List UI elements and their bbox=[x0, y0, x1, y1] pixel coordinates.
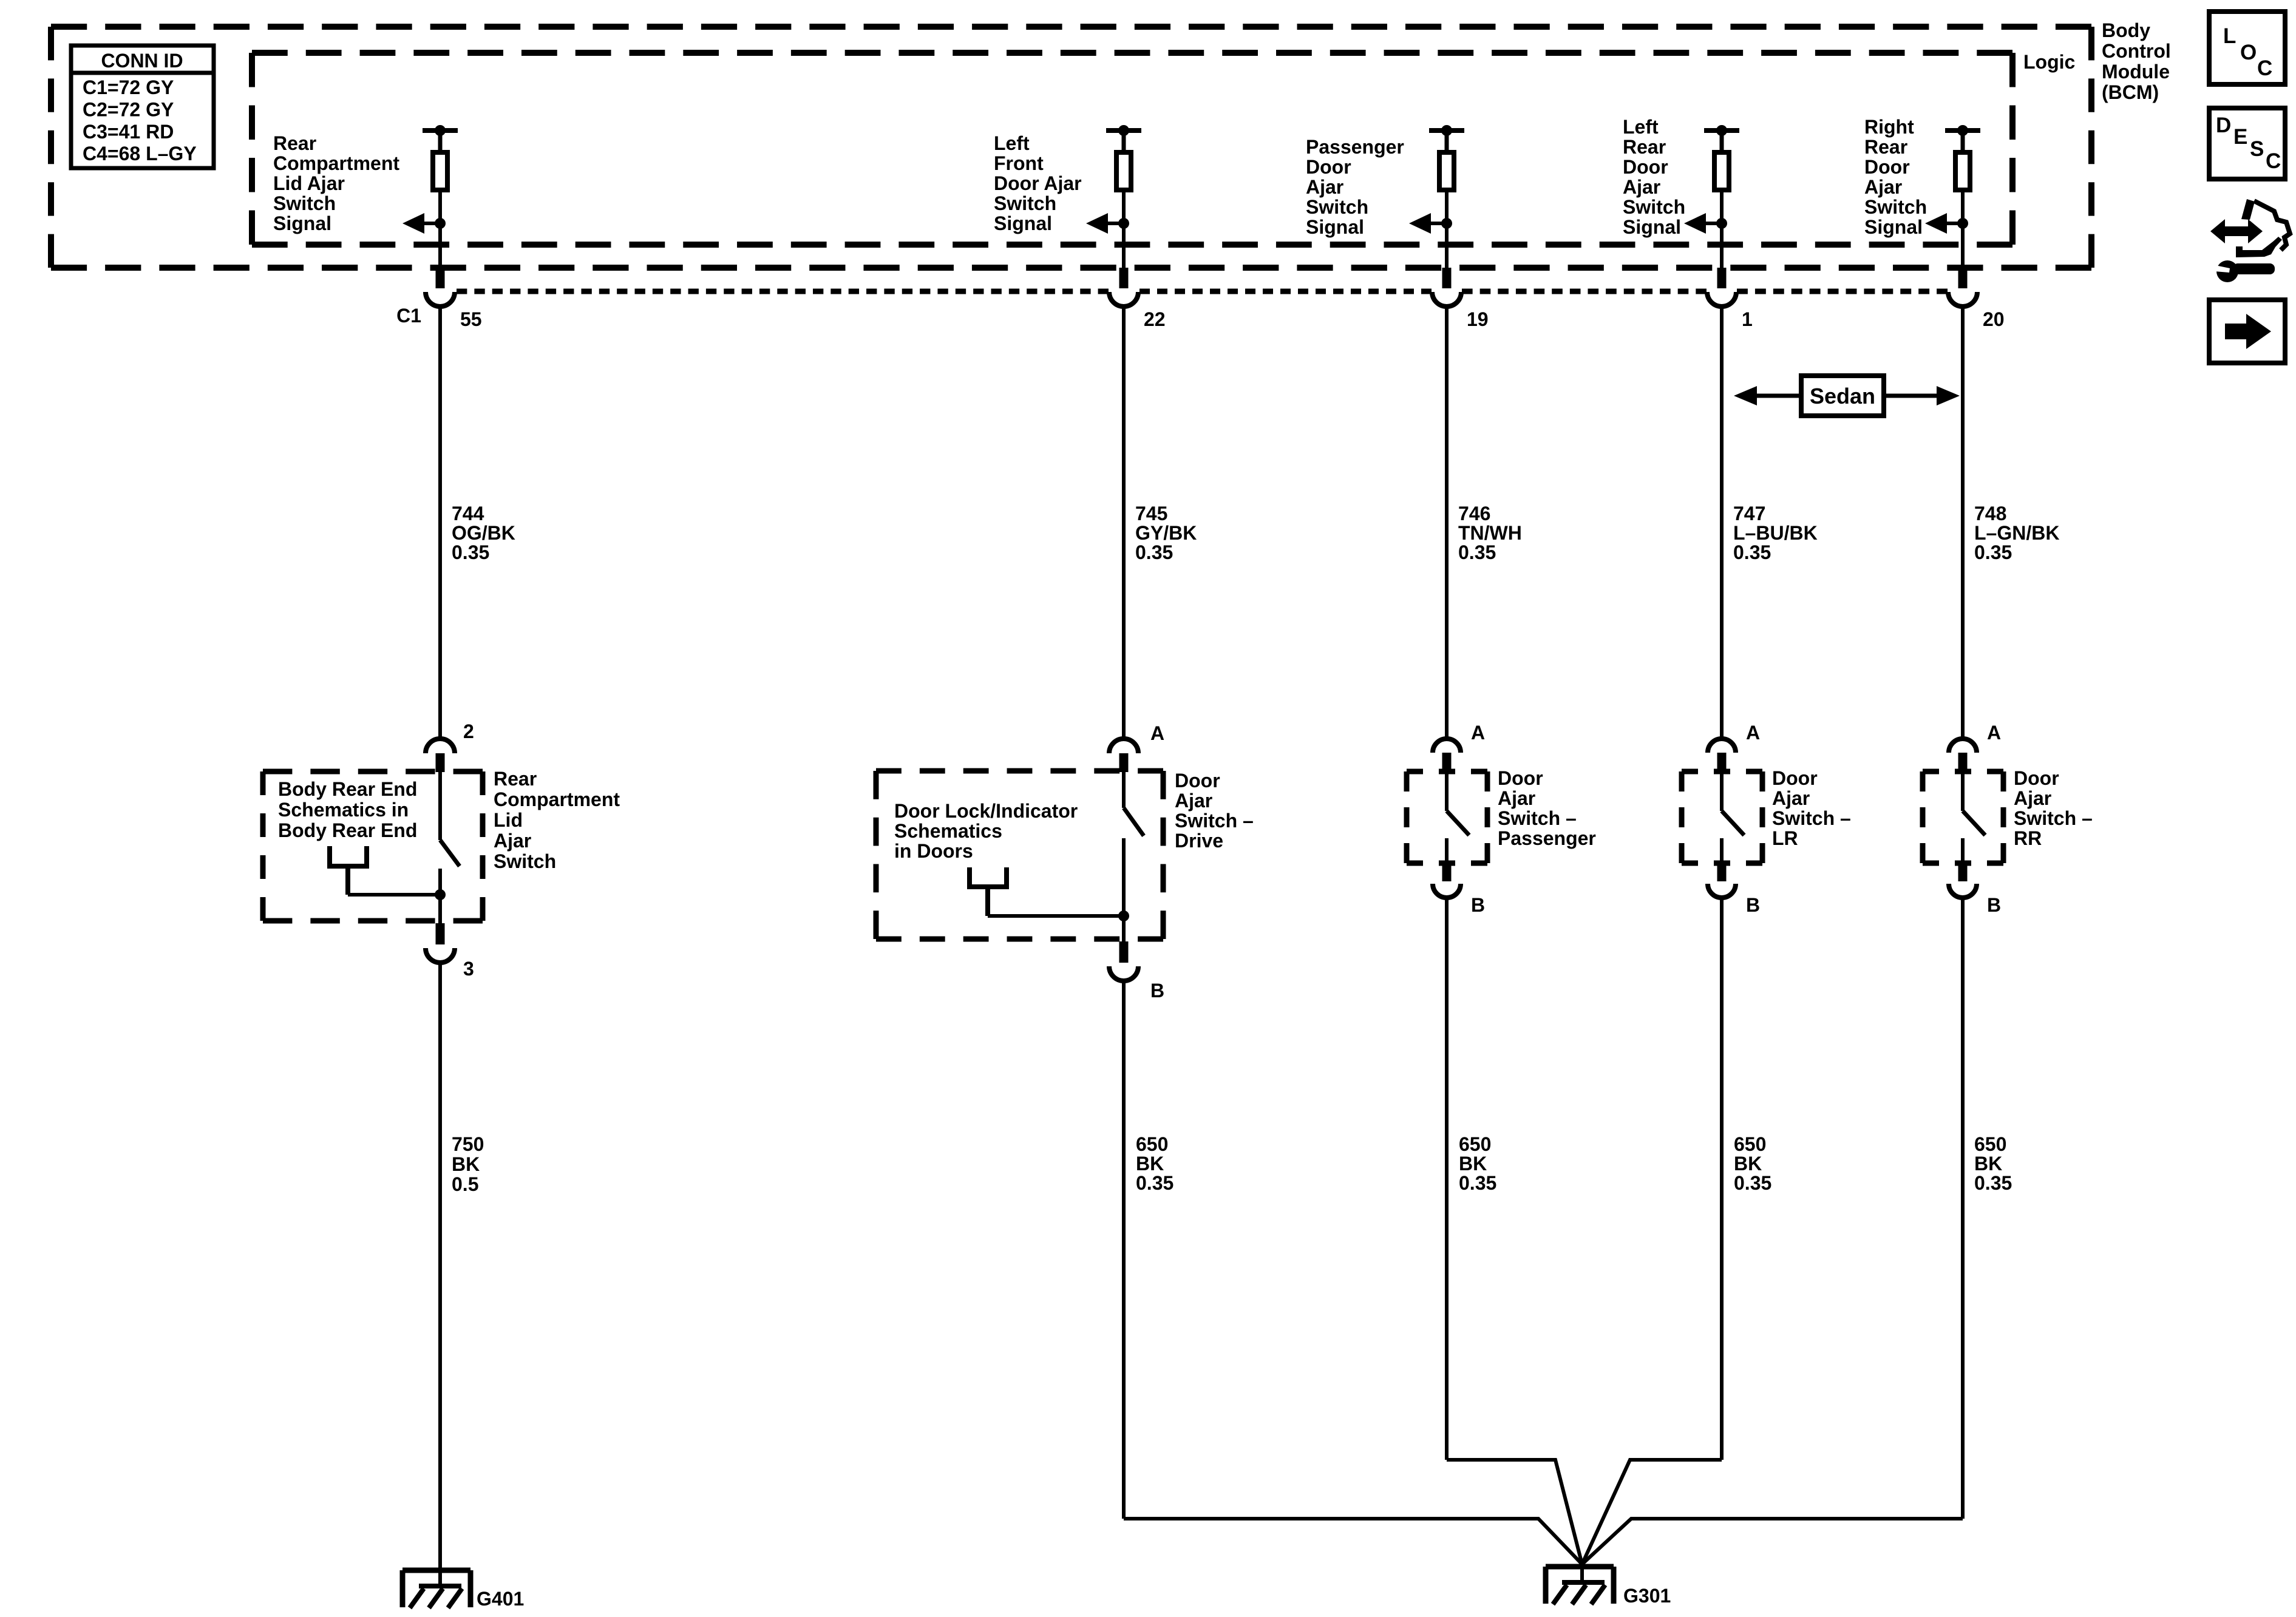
svg-text:L–BU/BK: L–BU/BK bbox=[1733, 522, 1818, 544]
label: Door Ajar Switch - Passenger bbox=[1498, 767, 1596, 849]
svg-text:0.35: 0.35 bbox=[1733, 541, 1771, 563]
wire circuit 650 down (drive) bbox=[1122, 981, 1126, 1519]
svg-text:Compartment: Compartment bbox=[273, 152, 399, 174]
wire label 748 L–GN/BK 0.35 bbox=[1974, 503, 2059, 563]
wire label 650 BK 0.35 (right rear) bbox=[1974, 1133, 2012, 1194]
label: Left Front Door Ajar Switch Signal bbox=[994, 132, 1082, 234]
svg-text:Compartment: Compartment bbox=[494, 788, 620, 810]
signal arrow into logic, column 1 bbox=[402, 213, 446, 234]
pin terminal 2 bbox=[436, 753, 445, 772]
wire run to ground splice (right rear) bbox=[1582, 1519, 1963, 1564]
svg-text:Schematics in: Schematics in bbox=[278, 799, 409, 821]
wire circuit 746 from BCM down bbox=[1445, 307, 1449, 739]
wire label 745 GY/BK 0.35 bbox=[1135, 503, 1197, 563]
svg-text:B: B bbox=[1471, 894, 1485, 916]
switch blade open (RR) bbox=[1963, 811, 1985, 835]
svg-text:Body: Body bbox=[2102, 19, 2150, 41]
switch upper contact wire (LR) bbox=[1720, 772, 1724, 811]
switch S2 dashed outline box (Door Lock/Indicator) bbox=[876, 771, 1163, 939]
svg-text:B: B bbox=[1150, 980, 1164, 1002]
svg-text:Control: Control bbox=[2102, 40, 2171, 62]
svg-text:Left: Left bbox=[1623, 116, 1659, 138]
wire circuit 745 from BCM down bbox=[1122, 307, 1126, 739]
pin letter B bbox=[1150, 980, 1164, 1002]
svg-text:G301: G301 bbox=[1623, 1585, 1671, 1607]
BCM internal circuit: rear compartment lid ajar switch signal bbox=[423, 125, 458, 152]
svg-text:C4=68 L–GY: C4=68 L–GY bbox=[83, 143, 197, 164]
pin number 22 bbox=[1144, 308, 1166, 330]
svg-text:Switch: Switch bbox=[1864, 196, 1927, 218]
note: Door Lock/Indicator Schematics in Doors bbox=[894, 800, 1078, 862]
connector C1 dotted line bbox=[457, 289, 1948, 294]
wire run to ground splice (passenger) bbox=[1447, 1460, 1582, 1564]
svg-text:55: 55 bbox=[460, 308, 482, 330]
svg-text:Switch –: Switch – bbox=[2014, 807, 2093, 829]
svg-text:Switch –: Switch – bbox=[1772, 807, 1851, 829]
svg-text:3: 3 bbox=[463, 958, 474, 980]
pin terminal A bbox=[1717, 753, 1727, 772]
label Body Control Module (BCM) bbox=[2102, 19, 2171, 103]
svg-text:Switch –: Switch – bbox=[1175, 810, 1254, 832]
svg-text:Door: Door bbox=[1175, 770, 1220, 792]
pin terminal B (RR) bbox=[1958, 864, 1968, 881]
pin number 1 bbox=[1742, 308, 1753, 330]
BCM internal circuit: left front door ajar switch signal bbox=[1106, 125, 1141, 152]
BCM pin (male terminal), column 4 bbox=[1717, 268, 1727, 288]
switch blade open (LR) bbox=[1722, 811, 1744, 835]
svg-text:BK: BK bbox=[1734, 1153, 1762, 1175]
svg-text:in Doors: in Doors bbox=[894, 840, 973, 862]
svg-text:Left: Left bbox=[994, 132, 1030, 154]
switch upper contact wire (Passenger) bbox=[1445, 772, 1449, 811]
wire from off-page symbol to switch node bbox=[348, 893, 440, 897]
svg-text:L: L bbox=[2223, 24, 2236, 48]
svg-text:0.35: 0.35 bbox=[1974, 1172, 2012, 1194]
pin letter A bbox=[1746, 722, 1760, 744]
svg-text:Passenger: Passenger bbox=[1498, 827, 1596, 849]
svg-text:Switch –: Switch – bbox=[1498, 807, 1577, 829]
label: Rear Compartment Lid Ajar Switch Signal bbox=[273, 132, 399, 234]
wire resistor to BCM pin, column 1 bbox=[438, 190, 442, 268]
svg-text:BK: BK bbox=[1459, 1153, 1487, 1175]
off-page connection symbol (door lock/indicator schematics) bbox=[967, 867, 1009, 916]
svg-text:0.5: 0.5 bbox=[452, 1173, 478, 1195]
svg-text:650: 650 bbox=[1136, 1133, 1168, 1155]
svg-text:Signal: Signal bbox=[1623, 216, 1681, 238]
switch lower contact wire (RR) bbox=[1961, 838, 1965, 864]
switch S2 upper contact wire bbox=[1122, 772, 1126, 808]
connector pin 3 arc bbox=[426, 948, 455, 963]
connector cavity arc C1 pin 55 bbox=[426, 292, 455, 307]
resistor (switch signal pull-up) column 5 bbox=[1955, 152, 1970, 190]
BCM pin (male terminal), column 5 bbox=[1958, 268, 1968, 288]
svg-text:Lid Ajar: Lid Ajar bbox=[273, 172, 345, 194]
svg-text:OG/BK: OG/BK bbox=[452, 522, 515, 544]
connector pin A arc (door ajar switch - LR) bbox=[1708, 739, 1736, 753]
svg-text:Signal: Signal bbox=[1864, 216, 1923, 238]
pin letter A bbox=[1987, 722, 2001, 744]
BCM pin (male terminal), column 2 bbox=[1119, 268, 1129, 288]
svg-text:650: 650 bbox=[1974, 1133, 2006, 1155]
svg-text:E: E bbox=[2233, 125, 2247, 149]
svg-text:Door: Door bbox=[1772, 767, 1818, 789]
svg-text:Switch: Switch bbox=[1306, 196, 1368, 218]
pin number 3 bbox=[463, 958, 474, 980]
svg-text:B: B bbox=[1746, 894, 1760, 916]
BCM internal circuit: left rear door ajar switch signal bbox=[1704, 125, 1739, 152]
svg-text:750: 750 bbox=[452, 1133, 484, 1155]
svg-text:O: O bbox=[2240, 41, 2257, 64]
svg-text:Rear: Rear bbox=[1864, 136, 1907, 158]
svg-text:G401: G401 bbox=[477, 1588, 524, 1610]
svg-text:Switch: Switch bbox=[994, 192, 1056, 214]
switch dashed outline box (LR) bbox=[1682, 771, 1762, 863]
connector pin A arc (door ajar switch - Passenger) bbox=[1433, 739, 1461, 753]
svg-text:0.35: 0.35 bbox=[1459, 1172, 1496, 1194]
svg-text:Module: Module bbox=[2102, 61, 2170, 83]
wire circuit 748 from BCM down bbox=[1961, 307, 1965, 739]
svg-text:Sedan: Sedan bbox=[1810, 384, 1875, 408]
wire circuit 650 down (right rear) bbox=[1961, 898, 1965, 1519]
svg-text:C: C bbox=[2266, 149, 2281, 173]
label: Door Ajar Switch - LR bbox=[1772, 767, 1851, 849]
svg-text:Rear: Rear bbox=[494, 768, 537, 790]
wire resistor to BCM pin, column 2 bbox=[1122, 190, 1126, 268]
svg-text:Rear: Rear bbox=[1623, 136, 1666, 158]
wire circuit 744 from BCM down bbox=[438, 307, 442, 739]
switch upper contact wire (RR) bbox=[1961, 772, 1965, 811]
svg-text:Passenger: Passenger bbox=[1306, 136, 1404, 158]
svg-text:Body Rear End: Body Rear End bbox=[278, 819, 417, 841]
svg-text:Switch: Switch bbox=[1623, 196, 1685, 218]
svg-text:Door: Door bbox=[1306, 156, 1351, 178]
pin terminal B (Passenger) bbox=[1442, 864, 1452, 881]
wire label 750 BK 0.5 bbox=[452, 1133, 484, 1195]
resistor (switch signal pull-up) column 1 bbox=[433, 152, 447, 190]
svg-text:Switch: Switch bbox=[494, 850, 556, 872]
connector pin B arc bbox=[1109, 966, 1138, 981]
label: Right Rear Door Ajar Switch Signal bbox=[1864, 116, 1927, 238]
pin number 20 bbox=[1983, 308, 2005, 330]
connector pin B arc (RR) bbox=[1949, 884, 1977, 898]
svg-text:Signal: Signal bbox=[273, 212, 331, 234]
DESC icon box bbox=[2209, 108, 2285, 179]
switch dashed outline box (RR) bbox=[1923, 771, 2003, 863]
label: Passenger Door Ajar Switch Signal bbox=[1306, 136, 1404, 238]
pin terminal 3 bbox=[436, 923, 445, 944]
svg-text:L–GN/BK: L–GN/BK bbox=[1974, 522, 2059, 544]
resistor (switch signal pull-up) column 4 bbox=[1714, 152, 1729, 190]
svg-text:2: 2 bbox=[463, 720, 474, 742]
svg-text:Door: Door bbox=[1864, 156, 1910, 178]
label Logic bbox=[2023, 51, 2075, 73]
ground G301 bbox=[1546, 1564, 1614, 1604]
svg-text:Ajar: Ajar bbox=[1623, 176, 1660, 198]
svg-text:Rear: Rear bbox=[273, 132, 316, 154]
label: Left Rear Door Ajar Switch Signal bbox=[1623, 116, 1685, 238]
svg-text:0.35: 0.35 bbox=[1974, 541, 2012, 563]
svg-text:A: A bbox=[1150, 722, 1164, 744]
ground G401 bbox=[402, 1570, 470, 1608]
svg-text:Door Ajar: Door Ajar bbox=[994, 172, 1082, 194]
connector cavity arc C1 pin 19 bbox=[1432, 292, 1461, 307]
svg-text:A: A bbox=[1987, 722, 2001, 744]
svg-text:Ajar: Ajar bbox=[2014, 787, 2051, 809]
pin letter B bbox=[1471, 894, 1485, 916]
svg-text:20: 20 bbox=[1983, 308, 2005, 330]
switch S1 blade (open) bbox=[440, 840, 460, 866]
BCM pin (male terminal), column 1 bbox=[436, 268, 445, 288]
svg-text:Lid: Lid bbox=[494, 809, 523, 831]
connector pin B arc (Passenger) bbox=[1433, 884, 1461, 898]
svg-text:Ajar: Ajar bbox=[494, 830, 531, 852]
wire label 650 BK 0.35 (passenger) bbox=[1459, 1133, 1496, 1194]
svg-text:RR: RR bbox=[2014, 827, 2042, 849]
connector cavity arc C1 pin 1 bbox=[1707, 292, 1736, 307]
svg-text:650: 650 bbox=[1734, 1133, 1766, 1155]
wire circuit 650 down (passenger) bbox=[1445, 898, 1449, 1460]
svg-text:744: 744 bbox=[452, 503, 484, 524]
pin terminal B bbox=[1119, 941, 1129, 963]
switch S1 lower contact wire bbox=[438, 869, 442, 923]
BCM internal circuit: passenger door ajar switch signal bbox=[1429, 125, 1464, 152]
svg-text:Signal: Signal bbox=[994, 212, 1052, 234]
wire resistor to BCM pin, column 3 bbox=[1445, 190, 1449, 268]
Body Control Module (BCM) outer dashed box bbox=[51, 27, 2091, 268]
signal arrow into logic, column 3 bbox=[1409, 213, 1452, 234]
switch blade open (Passenger) bbox=[1447, 811, 1469, 835]
pin terminal A bbox=[1958, 753, 1968, 772]
svg-text:Ajar: Ajar bbox=[1864, 176, 1902, 198]
pin terminal A bbox=[1442, 753, 1452, 772]
svg-text:C1: C1 bbox=[396, 305, 421, 327]
svg-text:Door: Door bbox=[1498, 767, 1543, 789]
svg-text:Signal: Signal bbox=[1306, 216, 1364, 238]
svg-text:D: D bbox=[2216, 114, 2231, 137]
svg-text:C: C bbox=[2257, 56, 2272, 80]
label G401 bbox=[477, 1588, 524, 1610]
Sedan variant tag between pins 1 and 20 bbox=[1734, 376, 1960, 416]
connector pin A arc (door ajar switch - drive) bbox=[1109, 739, 1138, 753]
svg-text:0.35: 0.35 bbox=[452, 541, 489, 563]
label G301 bbox=[1623, 1585, 1671, 1607]
resistor (switch signal pull-up) column 3 bbox=[1439, 152, 1454, 190]
connector cavity arc C1 pin 22 bbox=[1109, 292, 1138, 307]
svg-text:Ajar: Ajar bbox=[1498, 787, 1535, 809]
wire resistor to BCM pin, column 4 bbox=[1720, 190, 1724, 268]
svg-text:BK: BK bbox=[1136, 1153, 1164, 1175]
note: Body Rear End Schematics in Body Rear End bbox=[278, 778, 417, 841]
svg-text:C3=41 RD: C3=41 RD bbox=[83, 121, 174, 143]
pin terminal B (LR) bbox=[1717, 864, 1727, 881]
signal arrow into logic, column 5 bbox=[1925, 213, 1968, 234]
BCM pin (male terminal), column 3 bbox=[1442, 268, 1452, 288]
connector pin 2 arc (rear compartment lid ajar switch) bbox=[426, 739, 455, 753]
service/repair icon (double arrow, bent outline, wrench) bbox=[2210, 199, 2290, 282]
pin number 2 bbox=[463, 720, 474, 742]
svg-text:Logic: Logic bbox=[2023, 51, 2075, 73]
svg-text:0.35: 0.35 bbox=[1458, 541, 1496, 563]
Logic inner dashed box bbox=[252, 53, 2012, 245]
wire circuit 750 to ground G401 bbox=[438, 963, 442, 1570]
signal arrow into logic, column 4 bbox=[1684, 213, 1727, 234]
svg-text:C2=72 GY: C2=72 GY bbox=[83, 98, 174, 120]
svg-text:Front: Front bbox=[994, 152, 1044, 174]
forward/next icon box bbox=[2209, 300, 2285, 363]
svg-text:B: B bbox=[1987, 894, 2001, 916]
svg-text:BK: BK bbox=[452, 1153, 480, 1175]
svg-text:A: A bbox=[1746, 722, 1760, 744]
pin letter B bbox=[1746, 894, 1760, 916]
switch S2 lower contact wire bbox=[1122, 838, 1126, 941]
pin terminal A bbox=[1119, 753, 1129, 772]
svg-text:Ajar: Ajar bbox=[1772, 787, 1810, 809]
connector cavity arc C1 pin 20 bbox=[1948, 292, 1977, 307]
svg-text:0.35: 0.35 bbox=[1135, 541, 1173, 563]
svg-text:Door: Door bbox=[2014, 767, 2059, 789]
wire label 650 BK 0.35 (left rear) bbox=[1734, 1133, 1771, 1194]
off-page connection symbol (body rear end schematics) bbox=[327, 846, 369, 895]
svg-text:Door Lock/Indicator: Door Lock/Indicator bbox=[894, 800, 1078, 822]
svg-text:0.35: 0.35 bbox=[1136, 1172, 1173, 1194]
svg-text:Right: Right bbox=[1864, 116, 1914, 138]
wire label 650 BK 0.35 (drive) bbox=[1136, 1133, 1173, 1194]
label: Door Ajar Switch - Drive bbox=[1175, 770, 1254, 852]
switch lower contact wire (LR) bbox=[1720, 838, 1724, 864]
svg-text:22: 22 bbox=[1144, 308, 1166, 330]
pin number 19 bbox=[1467, 308, 1489, 330]
wire run to ground splice (drive) bbox=[1124, 1519, 1582, 1564]
switch S1 upper contact wire bbox=[438, 772, 442, 840]
svg-text:Drive: Drive bbox=[1175, 830, 1223, 852]
label: Door Ajar Switch - RR bbox=[2014, 767, 2093, 849]
pin letter A bbox=[1150, 722, 1164, 744]
wire circuit 650 down (left rear) bbox=[1720, 898, 1724, 1460]
pin number 55 bbox=[396, 305, 482, 330]
svg-text:1: 1 bbox=[1742, 308, 1753, 330]
wire label 744 OG/BK 0.35 bbox=[452, 503, 515, 563]
svg-text:(BCM): (BCM) bbox=[2102, 81, 2159, 103]
svg-text:TN/WH: TN/WH bbox=[1458, 522, 1522, 544]
svg-text:Door: Door bbox=[1623, 156, 1668, 178]
wire circuit 747 from BCM down bbox=[1720, 307, 1724, 739]
switch S2 blade (open) bbox=[1124, 808, 1144, 836]
switch dashed outline box (Passenger) bbox=[1407, 771, 1487, 863]
wire resistor to BCM pin, column 5 bbox=[1961, 190, 1965, 268]
svg-text:650: 650 bbox=[1459, 1133, 1491, 1155]
wire run to ground splice (left rear) bbox=[1582, 1460, 1722, 1564]
svg-text:748: 748 bbox=[1974, 503, 2006, 524]
svg-text:Schematics: Schematics bbox=[894, 820, 1002, 842]
wire label 747 L–BU/BK 0.35 bbox=[1733, 503, 1818, 563]
svg-text:746: 746 bbox=[1458, 503, 1490, 524]
pin letter B bbox=[1987, 894, 2001, 916]
switch S1 dashed outline box (Body Rear End) bbox=[263, 771, 483, 921]
signal arrow into logic, column 2 bbox=[1086, 213, 1129, 234]
svg-text:A: A bbox=[1471, 722, 1485, 744]
svg-text:BK: BK bbox=[1974, 1153, 2002, 1175]
connector pin A arc (door ajar switch - RR) bbox=[1949, 739, 1977, 753]
wire from off-page symbol to switch node bbox=[988, 914, 1124, 918]
svg-text:CONN ID: CONN ID bbox=[101, 50, 183, 72]
svg-text:LR: LR bbox=[1772, 827, 1798, 849]
svg-text:Ajar: Ajar bbox=[1306, 176, 1343, 198]
svg-text:Ajar: Ajar bbox=[1175, 790, 1212, 812]
BCM internal circuit: right rear door ajar switch signal bbox=[1945, 125, 1980, 152]
switch lower contact wire (Passenger) bbox=[1445, 838, 1449, 864]
svg-text:745: 745 bbox=[1135, 503, 1167, 524]
svg-text:0.35: 0.35 bbox=[1734, 1172, 1771, 1194]
svg-text:Switch: Switch bbox=[273, 192, 336, 214]
svg-text:C1=72 GY: C1=72 GY bbox=[83, 76, 174, 98]
resistor (switch signal pull-up) column 2 bbox=[1116, 152, 1131, 190]
junction node S2 bbox=[1118, 910, 1129, 921]
connector pin B arc (LR) bbox=[1708, 884, 1736, 898]
CONN ID table bbox=[71, 46, 214, 168]
svg-text:Body Rear End: Body Rear End bbox=[278, 778, 417, 800]
label: Rear Compartment Lid Ajar Switch bbox=[494, 768, 620, 872]
pin letter A bbox=[1471, 722, 1485, 744]
junction node S1 bbox=[435, 889, 446, 900]
svg-text:19: 19 bbox=[1467, 308, 1489, 330]
svg-text:GY/BK: GY/BK bbox=[1135, 522, 1197, 544]
wire label 746 TN/WH 0.35 bbox=[1458, 503, 1522, 563]
svg-text:747: 747 bbox=[1733, 503, 1765, 524]
svg-text:S: S bbox=[2250, 137, 2264, 161]
LOC icon box bbox=[2209, 12, 2285, 84]
